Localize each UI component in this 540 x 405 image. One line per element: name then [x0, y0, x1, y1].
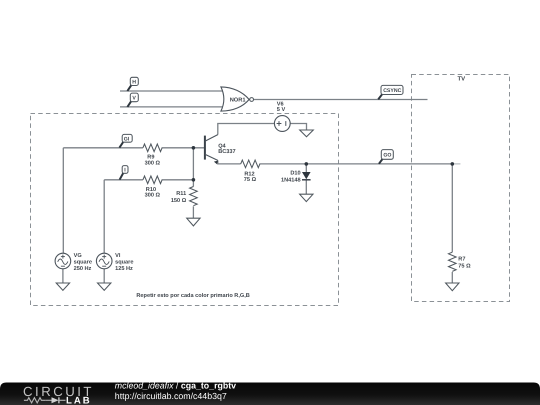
- wire collector to V6: [218, 124, 275, 135]
- svg-text:square: square: [74, 260, 92, 266]
- footer bar: [0, 383, 540, 405]
- svg-text:R11: R11: [176, 191, 186, 197]
- ground at D10: [300, 194, 313, 201]
- wire R7 to ground: [451, 272, 453, 283]
- svg-text:http://circuitlab.com/c44b3q7: http://circuitlab.com/c44b3q7: [115, 391, 227, 401]
- ground at R11: [187, 218, 200, 226]
- op-amp gate NOR1 body: [221, 87, 254, 111]
- transistor Q4 BC337: [205, 135, 236, 165]
- svg-text:GI: GI: [124, 136, 130, 142]
- svg-text:75 Ω: 75 Ω: [458, 263, 471, 269]
- svg-text:BC337: BC337: [218, 149, 235, 155]
- node junction R9/base: [192, 146, 196, 150]
- svg-text:D10: D10: [290, 171, 300, 177]
- svg-text:300 Ω: 300 Ω: [145, 160, 161, 166]
- wire D10 to ground: [305, 180, 307, 194]
- svg-text:NOR1: NOR1: [230, 97, 246, 103]
- ground at VG: [56, 283, 69, 290]
- wire GI net horizontal: [63, 147, 143, 149]
- svg-text:GO: GO: [383, 153, 391, 159]
- resistor R11 (vertical): [171, 187, 197, 206]
- logo resistor zigzag: [24, 398, 45, 403]
- svg-text:TV: TV: [458, 76, 466, 83]
- wire VI to ground: [103, 269, 105, 283]
- node junction TV: [451, 162, 455, 166]
- flag I: [120, 166, 128, 180]
- voltage source V6: [274, 102, 290, 132]
- flag H: [127, 77, 138, 91]
- ground at VI: [98, 283, 111, 290]
- svg-text:300 Ω: 300 Ω: [145, 193, 161, 199]
- resistor R12: [241, 160, 260, 183]
- box: Repetir subcircuit dashed boundary: [31, 114, 339, 306]
- wire VG to ground: [62, 269, 64, 283]
- wire VI vertical: [103, 180, 105, 254]
- logo wire after diode: [59, 399, 66, 401]
- wire emitter to R12: [218, 160, 241, 164]
- flag GI: [119, 134, 132, 147]
- svg-text:mcleod_ideafix / cga_to_rgbtv: mcleod_ideafix / cga_to_rgbtv: [115, 380, 236, 390]
- diode D10 1N4148: [281, 171, 311, 184]
- wire junction link R9/R10: [192, 148, 194, 180]
- svg-text:H: H: [132, 80, 136, 86]
- resistor R10: [143, 176, 162, 199]
- source VG (function generator): [55, 253, 92, 272]
- flag CSYNC: [378, 85, 403, 99]
- wire R12 to GO and TV: [259, 163, 452, 165]
- wire V6 to ground: [290, 124, 306, 130]
- wire V input: [120, 106, 224, 108]
- svg-text:LAB: LAB: [66, 395, 92, 405]
- svg-text:1N4148: 1N4148: [281, 177, 301, 183]
- resistor R7 (vertical, in TV): [449, 252, 472, 271]
- svg-text:5 V: 5 V: [277, 107, 286, 113]
- svg-text:Repetir esto por cada color pr: Repetir esto por cada color primario R,G…: [136, 292, 249, 299]
- flag GO: [379, 150, 393, 164]
- svg-text:CSYNC: CSYNC: [383, 88, 401, 94]
- svg-text:125 Hz: 125 Hz: [115, 266, 133, 272]
- svg-text:square: square: [115, 260, 133, 266]
- node junction R10/R11: [192, 178, 196, 182]
- resistor R9: [143, 144, 162, 166]
- ground at R7: [446, 283, 459, 291]
- wire junction to D10: [305, 164, 307, 172]
- svg-text:R7: R7: [458, 257, 465, 263]
- wire stub right of TV junction: [452, 163, 460, 165]
- wire TV junction down to R7: [451, 164, 453, 252]
- svg-text:V: V: [132, 96, 136, 102]
- logo diode: [52, 397, 59, 403]
- svg-text:75 Ω: 75 Ω: [244, 177, 257, 183]
- wire VG to GI corner vertical: [62, 148, 64, 254]
- svg-text:VG: VG: [74, 253, 82, 259]
- ground at V6: [300, 130, 314, 137]
- wire junction to R11: [192, 180, 194, 187]
- flag V: [127, 93, 138, 107]
- logo wire to diode: [45, 399, 51, 401]
- svg-text:150 Ω: 150 Ω: [171, 198, 187, 204]
- wire R11 to ground: [192, 206, 194, 218]
- svg-text:VI: VI: [115, 253, 121, 259]
- wire R9 to base: [162, 147, 205, 149]
- box: TV dashed boundary: [412, 75, 510, 302]
- node junction D10: [305, 162, 309, 166]
- source VI (function generator): [96, 253, 133, 272]
- wire H input: [120, 90, 224, 92]
- wire NOR1 output to CSYNC: [253, 99, 427, 101]
- svg-text:250 Hz: 250 Hz: [74, 266, 92, 272]
- wire I net horizontal: [104, 179, 143, 181]
- wire R10 to junction: [162, 179, 194, 181]
